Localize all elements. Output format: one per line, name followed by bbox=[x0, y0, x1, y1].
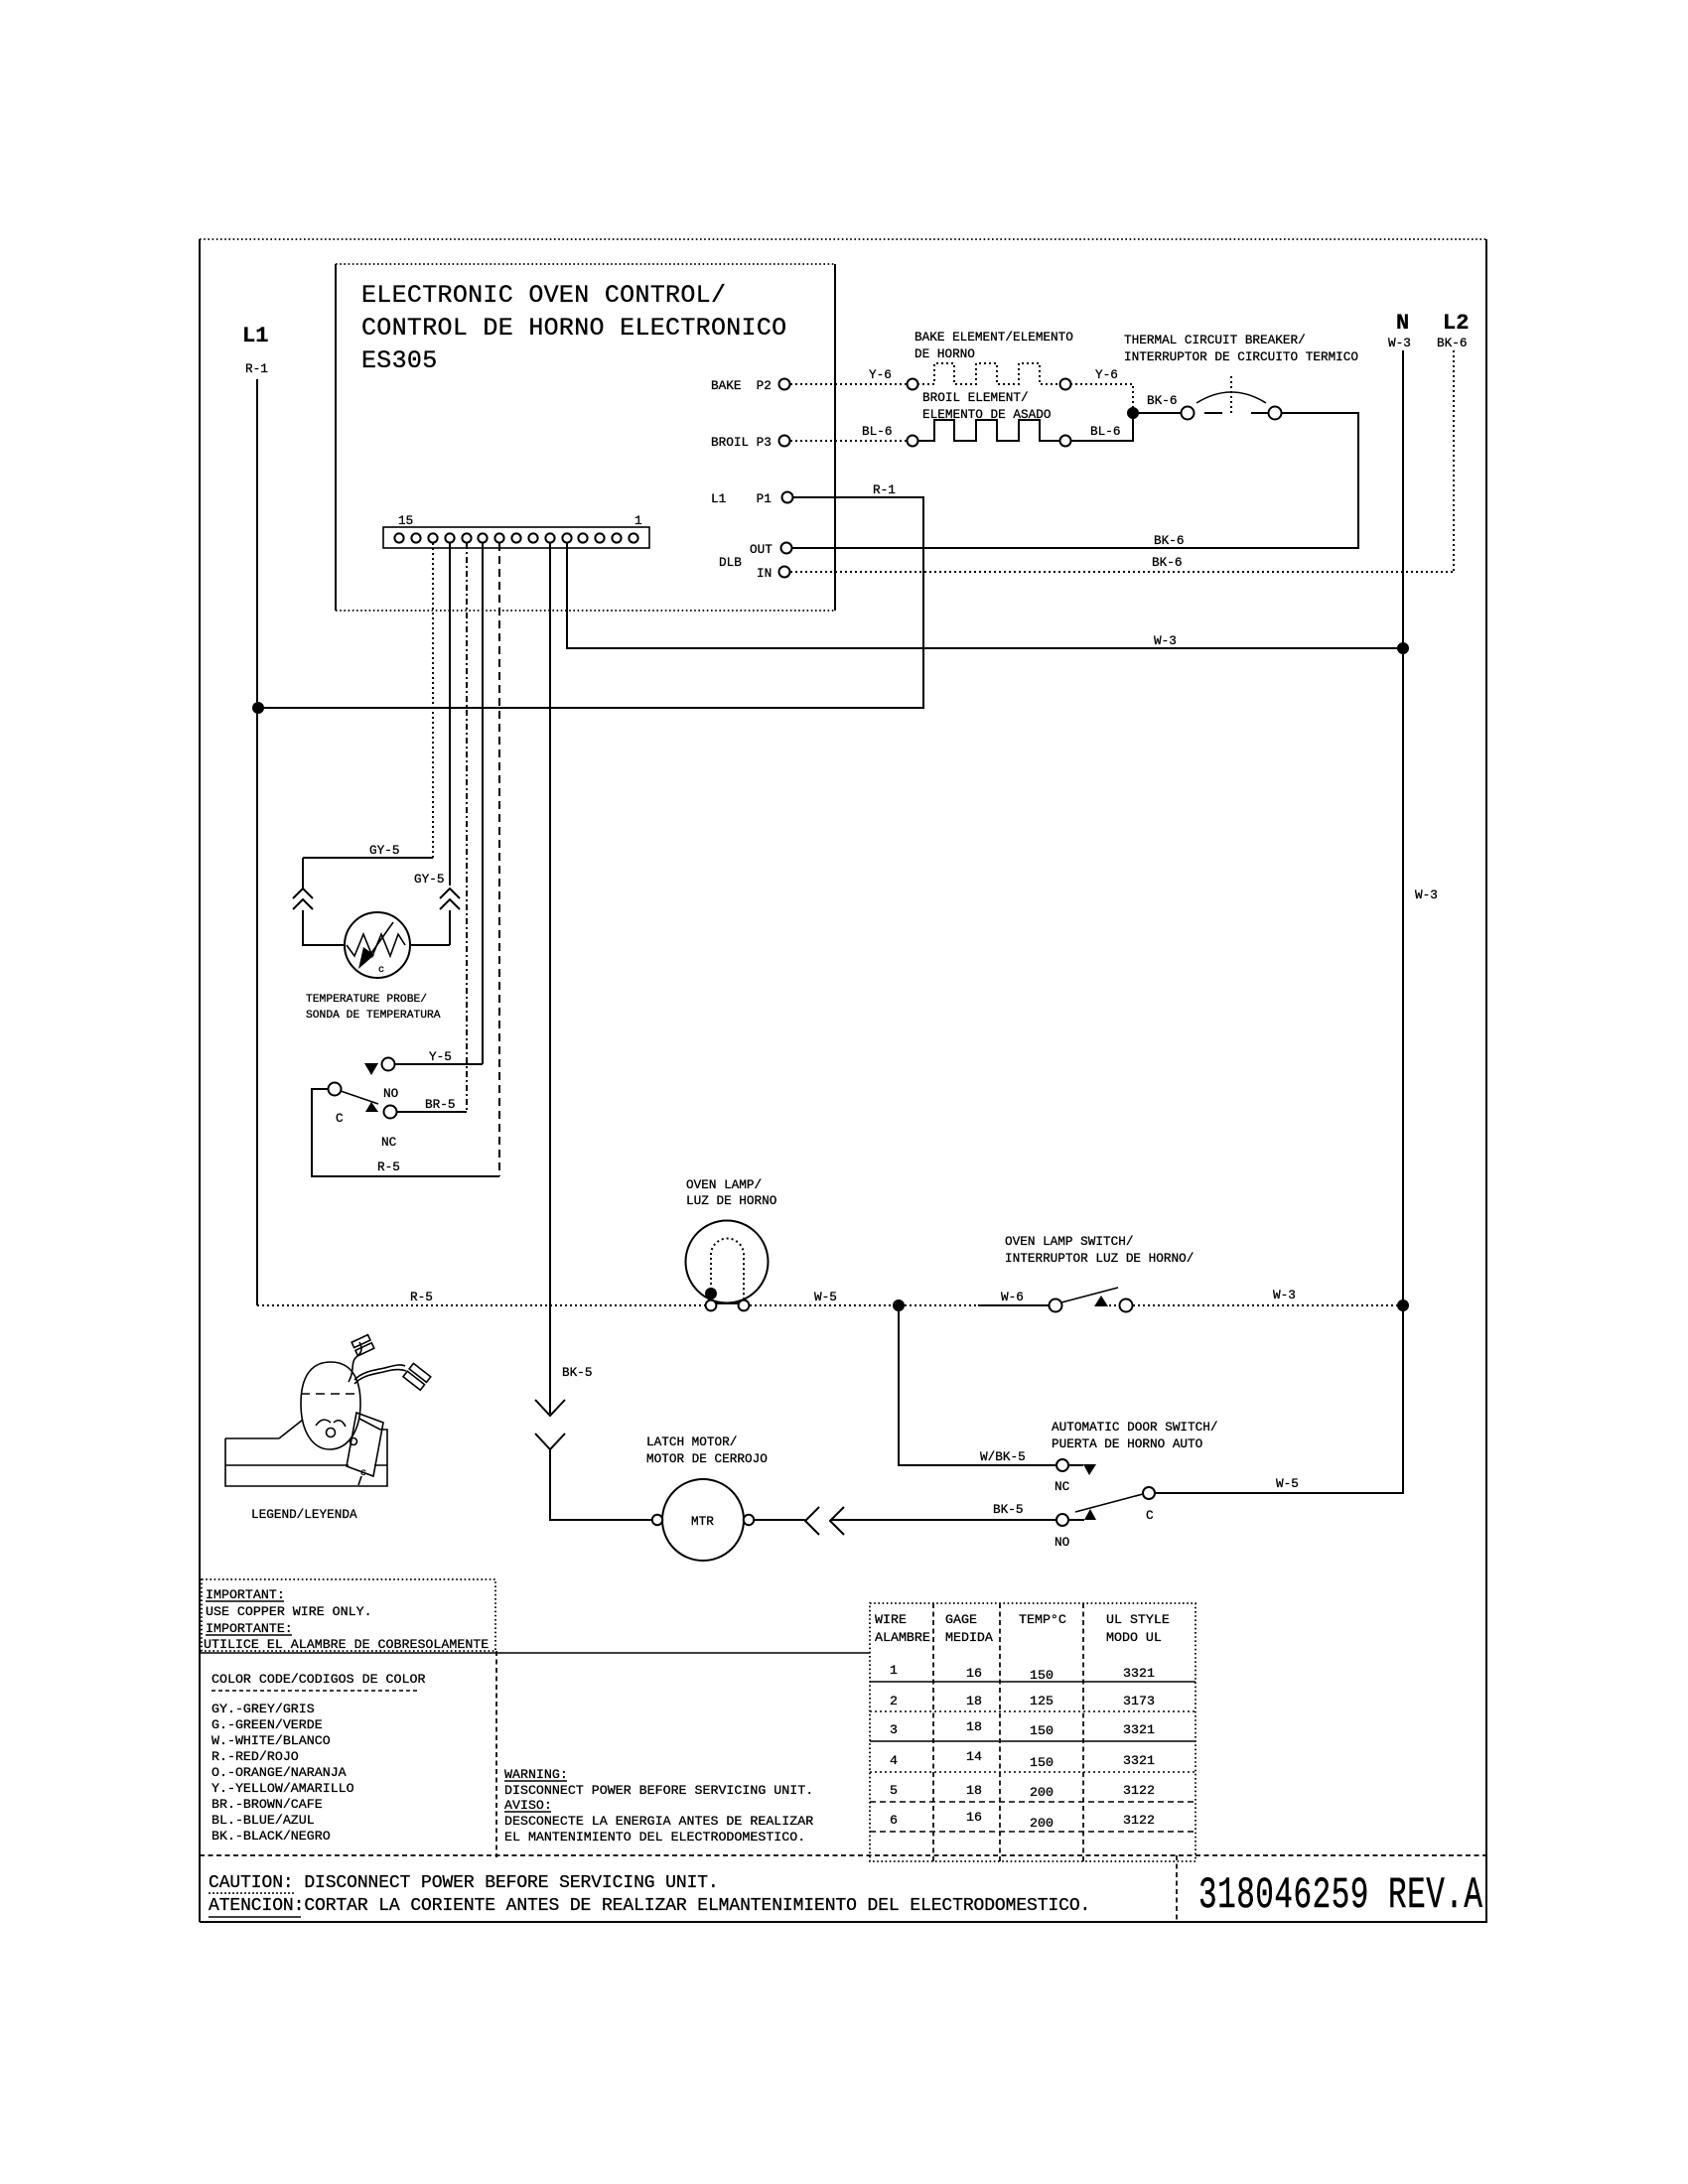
svg-text:OUT: OUT bbox=[750, 542, 773, 557]
wire R-1 from pin P1 bbox=[262, 497, 923, 708]
svg-text:DESCONECTE LA ENERGIA ANTES DE: DESCONECTE LA ENERGIA ANTES DE REALIZAR bbox=[504, 1814, 813, 1829]
svg-text:C: C bbox=[336, 1111, 344, 1126]
wire W/BK-5 from lamp junction bbox=[899, 1305, 1055, 1465]
junction L1/R-1 bbox=[252, 702, 264, 714]
wire DLB OUT BK-6 bbox=[791, 413, 1358, 548]
svg-text:W-5: W-5 bbox=[814, 1290, 837, 1304]
svg-text:W.-WHITE/BLANCO: W.-WHITE/BLANCO bbox=[211, 1733, 331, 1748]
connector chevrons BK-5 bbox=[535, 1400, 565, 1449]
svg-text:L2: L2 bbox=[1443, 311, 1469, 336]
wire GY-5 horizontal bbox=[303, 857, 433, 859]
svg-text:150: 150 bbox=[1030, 1755, 1054, 1770]
svg-text:GY-5: GY-5 bbox=[369, 843, 399, 858]
svg-text:AUTOMATIC DOOR SWITCH/: AUTOMATIC DOOR SWITCH/ bbox=[1052, 1420, 1218, 1434]
wire pin13 GY-5 dotted bbox=[432, 543, 434, 858]
page border frame bbox=[200, 238, 1487, 240]
caution strip divider bbox=[200, 1854, 1487, 1856]
svg-text:BROIL P3: BROIL P3 bbox=[711, 435, 772, 450]
junction W-3/N bbox=[1397, 642, 1409, 654]
wire Y-6 right bbox=[1070, 384, 1133, 408]
svg-text:OVEN LAMP SWITCH/: OVEN LAMP SWITCH/ bbox=[1005, 1234, 1133, 1249]
svg-text:ES305: ES305 bbox=[361, 346, 438, 375]
svg-text:OVEN LAMP/: OVEN LAMP/ bbox=[686, 1177, 762, 1192]
svg-text:C: C bbox=[1146, 1508, 1154, 1523]
svg-text:WARNING:: WARNING: bbox=[504, 1767, 568, 1782]
svg-text:UTILICE EL ALAMBRE DE COBRESOL: UTILICE EL ALAMBRE DE COBRESOLAMENTE bbox=[204, 1637, 489, 1652]
svg-text:6: 6 bbox=[890, 1813, 898, 1828]
part number 318046259 REV.A bbox=[1198, 1871, 1482, 1921]
wire W-3 from pin5 to N bbox=[567, 543, 1397, 648]
svg-text:UL STYLE: UL STYLE bbox=[1106, 1612, 1170, 1627]
MOTOR bbox=[535, 1305, 1218, 1561]
svg-text:15: 15 bbox=[398, 513, 413, 528]
svg-text:150: 150 bbox=[1030, 1668, 1054, 1683]
svg-text:14: 14 bbox=[966, 1749, 982, 1764]
svg-text:W-3: W-3 bbox=[1388, 336, 1411, 350]
svg-text:Y.-YELLOW/AMARILLO: Y.-YELLOW/AMARILLO bbox=[211, 1781, 354, 1796]
svg-text:MEDIDA: MEDIDA bbox=[945, 1630, 993, 1645]
svg-text:c: c bbox=[378, 965, 384, 976]
wire pin9 R-5 dashed bbox=[498, 543, 500, 1176]
legend bracket base bbox=[225, 1419, 387, 1486]
svg-text:CAUTION: DISCONNECT POWER BEFO: CAUTION: DISCONNECT POWER BEFORE SERVICI… bbox=[209, 1873, 719, 1893]
svg-text:PUERTA DE HORNO AUTO: PUERTA DE HORNO AUTO bbox=[1052, 1436, 1202, 1451]
svg-text:TEMP°C: TEMP°C bbox=[1019, 1612, 1066, 1627]
svg-text:200: 200 bbox=[1030, 1816, 1054, 1831]
svg-text:18: 18 bbox=[966, 1783, 982, 1798]
svg-text:G.-GREEN/VERDE: G.-GREEN/VERDE bbox=[211, 1717, 323, 1732]
svg-text:W-3: W-3 bbox=[1273, 1288, 1296, 1302]
door switch C contact bbox=[1143, 1487, 1155, 1499]
svg-text:DLB: DLB bbox=[719, 555, 742, 570]
wire BK-5 to door switch NO bbox=[830, 1519, 1055, 1521]
broil element R2 bbox=[908, 436, 918, 447]
svg-text:ALAMBRE: ALAMBRE bbox=[875, 1630, 930, 1645]
svg-text:BK-6: BK-6 bbox=[1437, 336, 1467, 350]
svg-text:1: 1 bbox=[890, 1663, 898, 1678]
svg-text:R-1: R-1 bbox=[245, 361, 268, 376]
wire N vertical W-3 bbox=[1156, 350, 1403, 1493]
door switch NC contact bbox=[1056, 1459, 1068, 1471]
latch motor M1 bbox=[662, 1479, 744, 1561]
LAMP bbox=[257, 1177, 1409, 1312]
wire pin10 Y-5 solid bbox=[482, 543, 484, 1064]
svg-text:IN: IN bbox=[757, 566, 772, 581]
bake element R1 bbox=[908, 379, 918, 390]
junction Y-6/BL-6 bbox=[1127, 407, 1139, 419]
svg-text:ELECTRONIC OVEN CONTROL/: ELECTRONIC OVEN CONTROL/ bbox=[361, 281, 726, 310]
separator line above color code bbox=[200, 1652, 870, 1654]
svg-text:BR-5: BR-5 bbox=[425, 1097, 455, 1112]
svg-text:MTR: MTR bbox=[691, 1514, 714, 1529]
connector strip P15..P1 bbox=[383, 527, 649, 548]
wire Y-6 dotted from P2 bbox=[790, 383, 907, 385]
svg-text:BAKE ELEMENT/ELEMENTO: BAKE ELEMENT/ELEMENTO bbox=[914, 330, 1073, 344]
svg-text:Y-5: Y-5 bbox=[429, 1049, 452, 1064]
wire L2 vertical BK-6 dotted bbox=[1453, 350, 1455, 572]
svg-text:3173: 3173 bbox=[1123, 1694, 1155, 1708]
temperature probe RT1 bbox=[345, 912, 410, 978]
ELEMENTS bbox=[790, 330, 1358, 447]
divider between color code and warning bbox=[495, 1651, 497, 1857]
svg-text:LUZ DE HORNO: LUZ DE HORNO bbox=[686, 1193, 776, 1208]
oven lamp switch S2 bbox=[1050, 1299, 1062, 1312]
svg-text:3122: 3122 bbox=[1123, 1813, 1155, 1828]
svg-text:INTERRUPTOR DE CIRCUITO TERMIC: INTERRUPTOR DE CIRCUITO TERMICO bbox=[1124, 349, 1358, 364]
svg-text:W-3: W-3 bbox=[1154, 633, 1177, 648]
svg-text:AVISO:: AVISO: bbox=[504, 1798, 552, 1813]
switch blade bbox=[341, 1091, 378, 1104]
junction W-3/N right bbox=[1397, 1299, 1409, 1311]
wire pin6 BK-5 solid bbox=[549, 543, 551, 1414]
svg-text:W-5: W-5 bbox=[1276, 1476, 1299, 1491]
svg-text:125: 125 bbox=[1030, 1694, 1054, 1708]
wire DLB IN BK-6 dotted bbox=[790, 571, 1454, 573]
svg-text:EL MANTENIMIENTO DEL ELECTRODO: EL MANTENIMIENTO DEL ELECTRODOMESTICO. bbox=[504, 1830, 805, 1844]
svg-text:3122: 3122 bbox=[1123, 1783, 1155, 1798]
svg-text:18: 18 bbox=[966, 1719, 982, 1734]
connector chevrons left bbox=[293, 888, 313, 909]
svg-text:COLOR CODE/CODIGOS DE COLOR: COLOR CODE/CODIGOS DE COLOR bbox=[211, 1672, 425, 1687]
svg-text:L1 P1: L1 P1 bbox=[711, 491, 772, 506]
svg-text:THERMAL CIRCUIT BREAKER/: THERMAL CIRCUIT BREAKER/ bbox=[1124, 333, 1306, 347]
svg-text:3321: 3321 bbox=[1123, 1753, 1155, 1768]
connector chevrons motor BK-5 bbox=[805, 1507, 844, 1535]
svg-text:N: N bbox=[1396, 311, 1409, 336]
svg-text:3: 3 bbox=[890, 1722, 898, 1737]
svg-text:L1: L1 bbox=[242, 324, 268, 348]
svg-text:W/BK-5: W/BK-5 bbox=[980, 1449, 1026, 1464]
svg-text:BL-6: BL-6 bbox=[862, 424, 892, 439]
wire motor to chevrons bbox=[755, 1519, 805, 1521]
contact C common bbox=[329, 1083, 342, 1096]
svg-text:R-5: R-5 bbox=[410, 1290, 433, 1304]
svg-text:DE HORNO: DE HORNO bbox=[914, 346, 975, 361]
svg-text:BR.-BROWN/CAFE: BR.-BROWN/CAFE bbox=[211, 1797, 323, 1812]
svg-text:16: 16 bbox=[966, 1666, 982, 1681]
svg-text:IMPORTANTE:: IMPORTANTE: bbox=[206, 1621, 293, 1636]
svg-text:R-1: R-1 bbox=[873, 482, 896, 497]
door switch blade bbox=[1075, 1494, 1143, 1512]
svg-text:O.-ORANGE/NARANJA: O.-ORANGE/NARANJA bbox=[211, 1765, 347, 1780]
svg-text:R-5: R-5 bbox=[377, 1160, 400, 1174]
svg-text:W-6: W-6 bbox=[1001, 1290, 1024, 1304]
svg-text:NO: NO bbox=[383, 1086, 398, 1101]
wire BK-5 to motor bbox=[550, 1449, 651, 1520]
svg-text:BK-5: BK-5 bbox=[993, 1502, 1023, 1517]
svg-text:BAKE P2: BAKE P2 bbox=[711, 378, 772, 393]
svg-text:150: 150 bbox=[1030, 1723, 1054, 1738]
svg-text:BK-5: BK-5 bbox=[562, 1365, 592, 1380]
electronic oven control box U1 bbox=[336, 264, 835, 611]
svg-text:BROIL ELEMENT/: BROIL ELEMENT/ bbox=[922, 390, 1029, 405]
wire R-5 dotted from L1 to lamp bbox=[257, 1304, 705, 1306]
svg-text:Y-6: Y-6 bbox=[1095, 367, 1118, 382]
svg-text:5: 5 bbox=[890, 1783, 898, 1798]
wire pin12 GY-5 solid bbox=[449, 543, 451, 886]
LEGEND bbox=[225, 1335, 431, 1522]
PROBE bbox=[293, 843, 499, 1176]
svg-text:2: 2 bbox=[890, 1694, 898, 1708]
svg-text:Y-6: Y-6 bbox=[869, 367, 892, 382]
wire probe left lead bbox=[303, 858, 345, 945]
svg-text:3321: 3321 bbox=[1123, 1666, 1155, 1681]
svg-text:ATENCION:CORTAR LA CORIENTE AN: ATENCION:CORTAR LA CORIENTE ANTES DE REA… bbox=[209, 1896, 1090, 1916]
svg-text:18: 18 bbox=[966, 1694, 982, 1708]
legend wires and spade terminals bbox=[349, 1342, 361, 1382]
wire BL-6 dotted from P3 bbox=[790, 440, 907, 442]
svg-text:SONDA DE TEMPERATURA: SONDA DE TEMPERATURA bbox=[306, 1010, 441, 1022]
svg-text:3321: 3321 bbox=[1123, 1722, 1155, 1737]
svg-text:BL-6: BL-6 bbox=[1090, 424, 1120, 439]
wire W-3 dotted lamp to N bbox=[1109, 1304, 1397, 1306]
wire BK-6 to breaker bbox=[1139, 412, 1181, 414]
svg-text:GY.-GREY/GRIS: GY.-GREY/GRIS bbox=[211, 1702, 315, 1716]
svg-text:R.-RED/ROJO: R.-RED/ROJO bbox=[211, 1749, 299, 1764]
svg-text:16: 16 bbox=[966, 1810, 982, 1825]
svg-text:BK-6: BK-6 bbox=[1154, 533, 1184, 548]
svg-text:318046259 REV.A: 318046259 REV.A bbox=[1198, 1871, 1482, 1921]
junction lamp filament bbox=[705, 1288, 717, 1299]
BOTTOM bbox=[200, 1579, 1487, 1922]
svg-text:MOTOR DE CERROJO: MOTOR DE CERROJO bbox=[646, 1451, 768, 1466]
svg-text:INTERRUPTOR LUZ DE HORNO/: INTERRUPTOR LUZ DE HORNO/ bbox=[1005, 1251, 1194, 1266]
wire table bbox=[870, 1603, 1196, 1861]
legend switch block bbox=[347, 1413, 383, 1476]
svg-text:GY-5: GY-5 bbox=[414, 872, 444, 887]
junction W-5/W-6/door bbox=[893, 1299, 905, 1311]
svg-text:IMPORTANT:: IMPORTANT: bbox=[206, 1587, 285, 1602]
contact BR-5 NC bbox=[365, 1102, 378, 1112]
connector chevrons right bbox=[440, 888, 460, 909]
svg-text:LEGEND/LEYENDA: LEGEND/LEYENDA bbox=[251, 1507, 357, 1522]
svg-text:MODO UL: MODO UL bbox=[1106, 1630, 1162, 1645]
svg-text:200: 200 bbox=[1030, 1785, 1054, 1800]
wire BL-6 right bbox=[1070, 418, 1133, 441]
svg-text:1: 1 bbox=[634, 513, 642, 528]
svg-text:BK-6: BK-6 bbox=[1152, 555, 1182, 570]
svg-text:4: 4 bbox=[890, 1753, 898, 1768]
svg-text:NC: NC bbox=[381, 1135, 397, 1150]
door switch NO contact bbox=[1056, 1514, 1068, 1526]
WIRES-TOP bbox=[242, 311, 1469, 1493]
svg-text:GAGE: GAGE bbox=[945, 1612, 977, 1627]
svg-text:TEMPERATURE PROBE/: TEMPERATURE PROBE/ bbox=[306, 994, 427, 1006]
svg-text:USE COPPER WIRE ONLY.: USE COPPER WIRE ONLY. bbox=[206, 1604, 372, 1619]
svg-text:BK-6: BK-6 bbox=[1147, 393, 1177, 408]
svg-text:NC: NC bbox=[1055, 1479, 1070, 1494]
svg-text:NO: NO bbox=[1055, 1535, 1069, 1550]
wire W-5 dotted bbox=[750, 1304, 893, 1306]
oven lamp DS1 bbox=[686, 1221, 769, 1303]
svg-text:W-3: W-3 bbox=[1415, 887, 1438, 902]
svg-text:WIRE: WIRE bbox=[875, 1612, 907, 1627]
wire L1 vertical bbox=[256, 379, 258, 1305]
svg-text:BK.-BLACK/NEGRO: BK.-BLACK/NEGRO bbox=[211, 1829, 331, 1843]
wire probe right lead bbox=[410, 910, 450, 945]
legend motor body sketch bbox=[301, 1362, 360, 1449]
svg-text:BL.-BLUE/AZUL: BL.-BLUE/AZUL bbox=[211, 1813, 315, 1828]
wire pin11 BR-5 dash-dot bbox=[466, 543, 468, 1112]
svg-text:LATCH MOTOR/: LATCH MOTOR/ bbox=[646, 1434, 737, 1449]
important note box bbox=[202, 1579, 495, 1651]
thermal circuit breaker CB1 bbox=[1182, 407, 1195, 420]
svg-text:CONTROL DE HORNO ELECTRONICO: CONTROL DE HORNO ELECTRONICO bbox=[361, 314, 786, 342]
wire W-6 to lamp switch bbox=[905, 1304, 978, 1306]
svg-text:DISCONNECT POWER BEFORE SERVIC: DISCONNECT POWER BEFORE SERVICING UNIT. bbox=[504, 1783, 813, 1798]
